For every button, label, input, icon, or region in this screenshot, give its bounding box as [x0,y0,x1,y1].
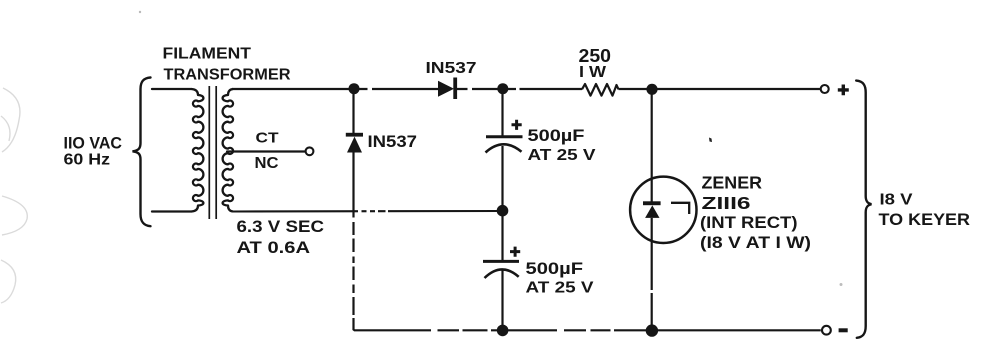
diode CR1 1N537 series [438,78,457,100]
svg-text:60 Hz: 60 Hz [64,151,111,168]
capacitor C2 500uF [483,261,519,278]
node junction dot zener bottom [646,324,658,336]
resistor R1 250 1W [582,84,619,96]
polarity plus C1 [512,120,522,130]
node junction dot middle [497,205,509,217]
svg-text:500µF: 500µF [526,260,584,278]
svg-text:IN537: IN537 [368,133,418,151]
svg-text:AT 25 V: AT 25 V [528,147,596,164]
wire C2 upper lead [501,211,503,261]
svg-text:I W: I W [579,64,606,81]
svg-text:CT: CT [256,129,279,146]
svg-text:AT 25 V: AT 25 V [526,279,594,296]
wire C2 lower lead [501,270,503,330]
wire primary top lead [152,88,192,90]
node junction dot bottom C2 [497,325,509,337]
terminal + output circle [821,85,829,93]
svg-text:AT 0.6A: AT 0.6A [237,239,311,257]
wire zener lower lead [651,218,653,331]
wire resistor to + terminal [619,88,821,90]
stray speck top [139,11,141,13]
zener CR3 diode element [643,201,661,218]
node junction dot at C1 top [497,83,508,94]
transformer T1 core [209,86,216,219]
label + [838,85,849,96]
stray faint dot right [840,283,843,286]
scan breaks in wires [352,87,654,332]
svg-text:(I8 V AT I W): (I8 V AT I W) [700,233,811,252]
terminal NC open circle [306,147,314,155]
node junction dot zener top [646,84,657,95]
label - [839,328,848,332]
wire middle (secondary bottom to C1/C2 node) [233,210,503,213]
zener CR3 circle envelope [630,177,696,243]
stray speck above zener label [709,138,712,143]
wire shunt branch upper [352,89,354,133]
brace 110VAC input [133,78,151,227]
svg-text:250: 250 [579,45,612,66]
svg-text:I8 V: I8 V [880,192,913,209]
svg-text:TRANSFORMER: TRANSFORMER [164,67,291,84]
wire primary bottom lead [152,210,192,212]
diode CR2 1N537 shunt [346,133,363,153]
svg-text:6.3 V SEC: 6.3 V SEC [237,218,325,236]
scan smudge left edge [1,88,27,303]
brace output right [856,81,871,338]
wire C1 upper lead [501,89,503,137]
svg-text:FILAMENT: FILAMENT [163,46,252,63]
svg-text:(INT RECT): (INT RECT) [700,213,798,232]
wire shunt branch lower + bottom rail left corner [354,153,821,331]
svg-text:NC: NC [255,155,279,172]
capacitor C1 500uF [486,137,523,153]
svg-text:TO KEYER: TO KEYER [879,211,971,229]
transformer T1 primary winding [192,89,204,212]
svg-text:IIO VAC: IIO VAC [64,135,123,153]
wire CT tap [227,150,306,152]
wire C1 lower lead [501,146,503,211]
wire secondary top to series diode [232,88,438,90]
transformer T1 secondary winding [223,89,233,212]
svg-text:ZENER: ZENER [702,173,763,193]
terminal - output circle [822,326,831,335]
svg-text:IN537: IN537 [426,60,477,77]
polarity plus C2 [510,247,520,257]
wire zener upper lead [651,89,653,202]
node junction dot top-left [349,83,360,94]
svg-text:500µF: 500µF [528,127,585,145]
wire diode to resistor [457,88,582,90]
svg-text:ZIII6: ZIII6 [702,193,751,213]
zener internal hook mark [671,203,689,214]
